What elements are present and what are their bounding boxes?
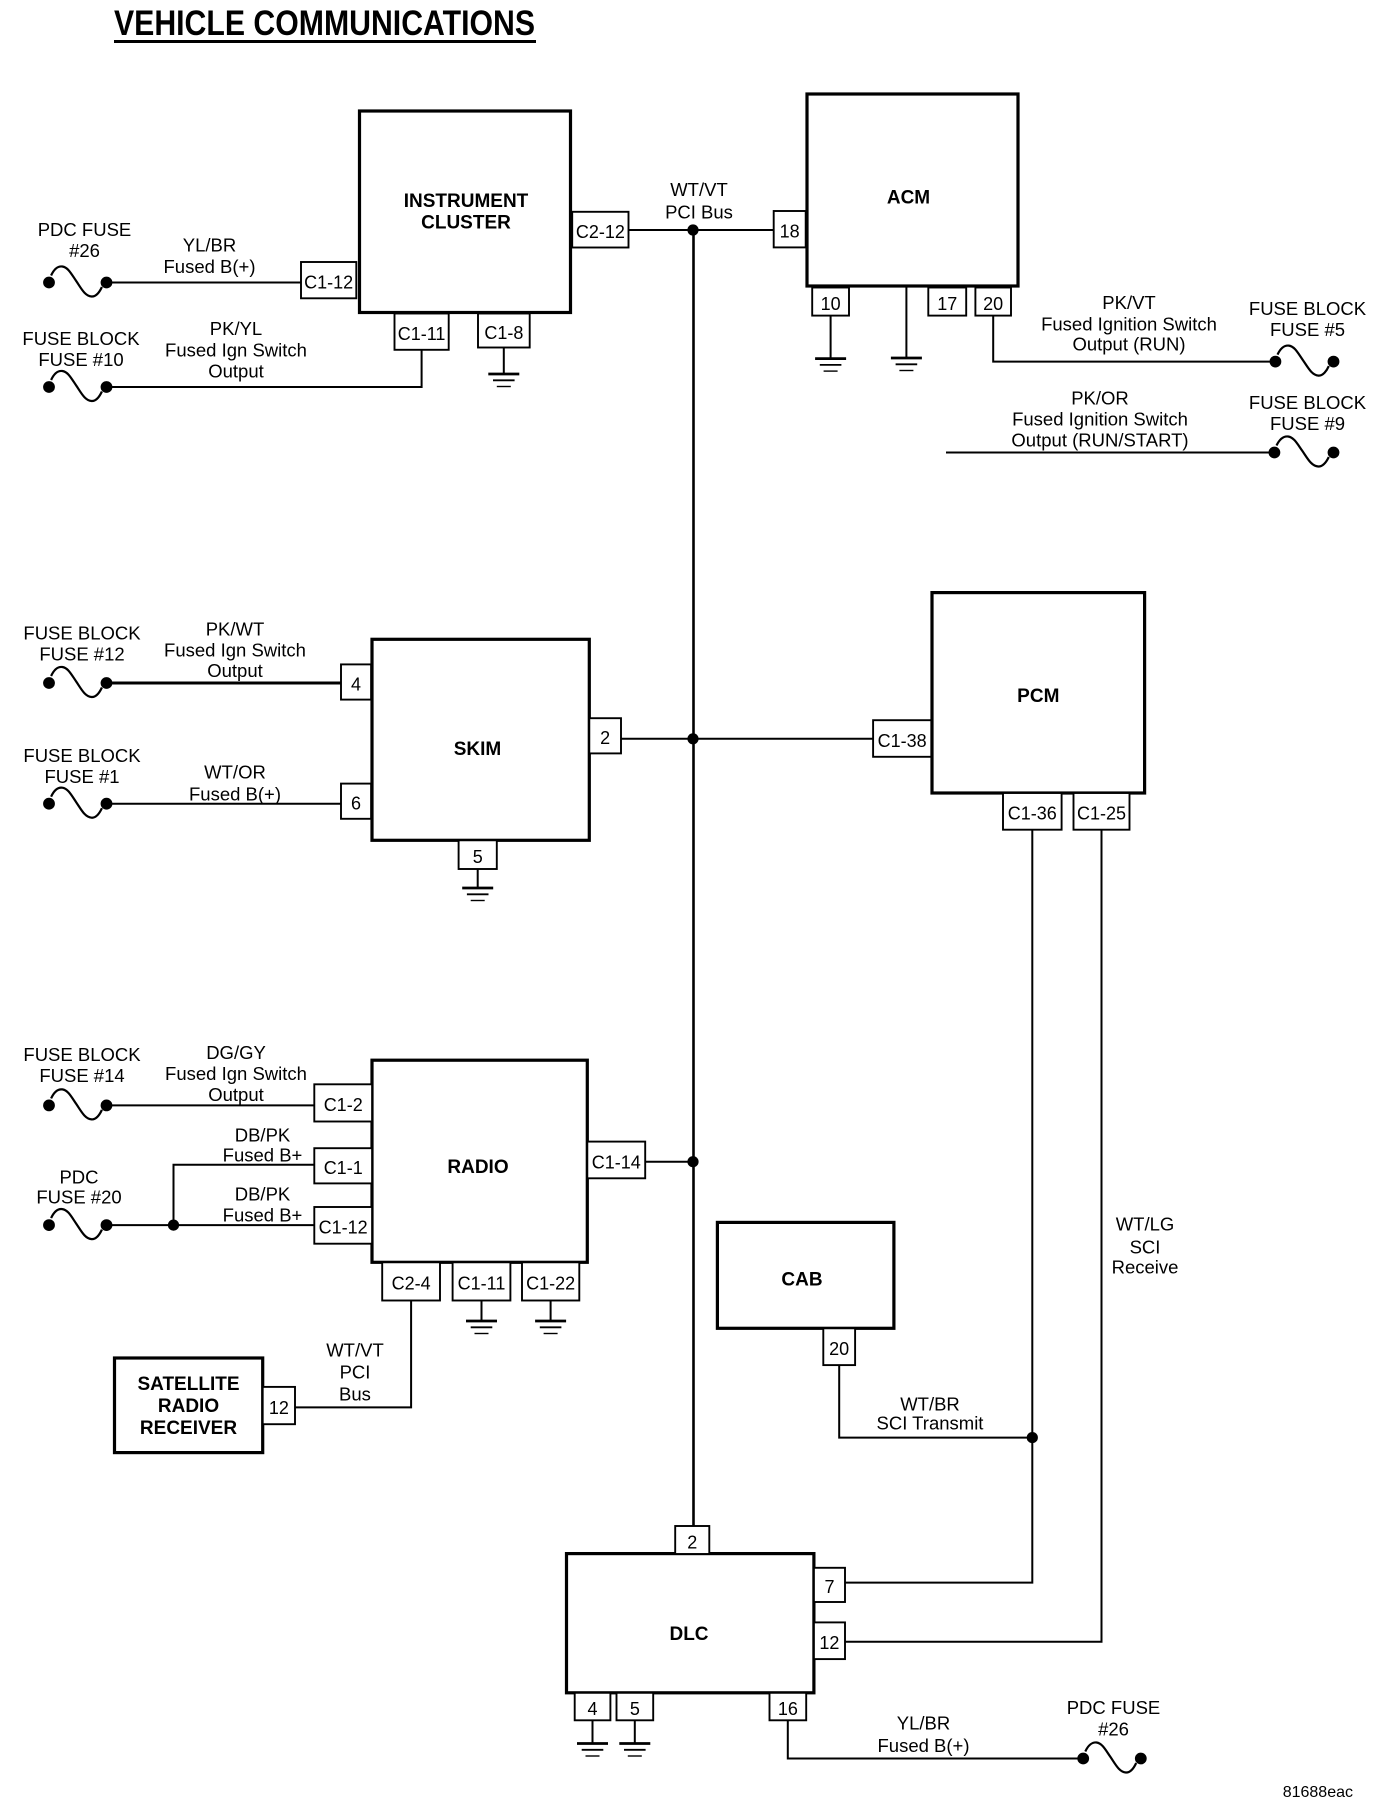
svg-text:PCM: PCM — [1017, 686, 1059, 707]
svg-text:CAB: CAB — [781, 1270, 822, 1291]
svg-text:FUSE BLOCK: FUSE BLOCK — [23, 1044, 141, 1065]
svg-text:WT/LG: WT/LG — [1116, 1214, 1175, 1235]
wire fuse block #10 to cluster C1-11 — [107, 350, 422, 387]
svg-text:C1-38: C1-38 — [878, 731, 927, 751]
fuse symbol FUSE BLOCK FUSE #10 — [43, 371, 112, 401]
svg-text:FUSE #9: FUSE #9 — [1270, 413, 1345, 434]
svg-text:12: 12 — [269, 1398, 289, 1418]
connector C1-2 (RADIO) — [314, 1084, 372, 1121]
svg-text:Bus: Bus — [339, 1384, 371, 1405]
wire ACM case ground pin — [905, 288, 907, 359]
node PCI bus junction at RADIO C1-14 — [687, 1156, 698, 1167]
node PCI bus junction at C2-12/ACM — [687, 224, 698, 235]
svg-text:PK/OR: PK/OR — [1071, 388, 1129, 409]
svg-text:FUSE BLOCK: FUSE BLOCK — [23, 623, 141, 644]
svg-text:Fused Ign Switch: Fused Ign Switch — [165, 1063, 307, 1084]
connector pin 5 (DLC) — [617, 1693, 654, 1721]
svg-text:DB/PK: DB/PK — [235, 1125, 291, 1146]
wire SKIM pin 2 to PCM C1-38 (PCI bus) — [621, 738, 873, 740]
connector C2-4 (RADIO) — [382, 1262, 440, 1300]
wire to fuse block #9 (PK/OR) — [946, 452, 1274, 454]
svg-text:C1-36: C1-36 — [1008, 804, 1057, 824]
box PCM U4 — [932, 593, 1145, 793]
connector C1-25 (PCM) — [1074, 793, 1130, 830]
svg-text:10: 10 — [821, 294, 841, 314]
svg-text:FUSE BLOCK: FUSE BLOCK — [22, 328, 140, 349]
connector pin 5 (SKIM) — [459, 840, 497, 869]
svg-text:WT/VT: WT/VT — [670, 179, 728, 200]
svg-text:Fused Ign Switch: Fused Ign Switch — [165, 340, 307, 361]
svg-text:PK/WT: PK/WT — [206, 619, 265, 640]
svg-text:PCI Bus: PCI Bus — [665, 202, 733, 223]
svg-text:7: 7 — [824, 1577, 834, 1597]
box RADIO U5 — [372, 1060, 587, 1262]
svg-text:RADIO: RADIO — [158, 1396, 219, 1417]
svg-text:81688eac: 81688eac — [1283, 1784, 1353, 1801]
svg-text:Fused B+: Fused B+ — [223, 1205, 303, 1226]
svg-text:SCI: SCI — [1130, 1237, 1161, 1258]
connector pin 12 (DLC) — [814, 1622, 845, 1659]
connector pin 4 (SKIM) — [341, 664, 371, 699]
svg-text:20: 20 — [829, 1339, 849, 1359]
ground (RADIO C1-11) — [466, 1321, 497, 1334]
box SATELLITE RADIO RECEIVER U6 — [115, 1358, 263, 1453]
box ACM U2 — [807, 94, 1018, 286]
connector C1-1 (RADIO) — [314, 1148, 372, 1183]
wire C1-8 to ground — [503, 348, 505, 375]
svg-text:C1-2: C1-2 — [324, 1095, 363, 1115]
svg-text:4: 4 — [588, 1699, 598, 1719]
wire DLC pin 16 to PDC fuse #26 (YL/BR) — [788, 1720, 1083, 1758]
connector pin 16 (DLC) — [770, 1693, 807, 1721]
ground (RADIO C1-22) — [535, 1321, 566, 1334]
fuse symbol PDC FUSE #20 — [43, 1209, 112, 1239]
svg-text:RECEIVER: RECEIVER — [140, 1418, 237, 1439]
wire PCM C1-36 down to DLC pin 7 (SCI transmit) — [845, 830, 1032, 1583]
svg-text:PK/VT: PK/VT — [1102, 292, 1155, 313]
fuse symbol FUSE BLOCK FUSE #12 — [43, 667, 112, 697]
connector pin 20 (CAB) — [823, 1328, 855, 1365]
wire CAB pin 20 to PCM C1-36 line (WT/BR SCI transmit) — [839, 1365, 1032, 1438]
wire fuse block #1 to SKIM pin 6 (WT/OR) — [107, 803, 342, 805]
connector pin 12 (satellite radio receiver) — [263, 1387, 295, 1424]
svg-text:Receive: Receive — [1112, 1257, 1179, 1278]
connector pin 4 (DLC) — [575, 1693, 611, 1721]
svg-text:C1-12: C1-12 — [304, 272, 353, 292]
svg-text:SATELLITE: SATELLITE — [137, 1374, 239, 1395]
svg-text:Fused B(+): Fused B(+) — [189, 784, 281, 805]
svg-text:Fused Ignition Switch: Fused Ignition Switch — [1041, 314, 1217, 335]
wire SKIM pin 5 to ground — [477, 869, 479, 888]
fuse symbol PDC FUSE #26 (top left) — [43, 266, 112, 296]
svg-text:DB/PK: DB/PK — [235, 1184, 291, 1205]
wire DLC pin 5 to ground — [634, 1720, 636, 1743]
wire fuse block #14 to RADIO C1-2 (DG/GY) — [107, 1104, 315, 1106]
svg-text:PCI: PCI — [340, 1362, 371, 1383]
connector pin 17 (ACM) — [928, 288, 966, 316]
svg-text:#26: #26 — [69, 240, 100, 261]
svg-text:FUSE #10: FUSE #10 — [38, 349, 123, 370]
svg-text:Fused B(+): Fused B(+) — [163, 256, 255, 277]
svg-text:4: 4 — [351, 674, 361, 694]
svg-text:12: 12 — [819, 1633, 839, 1653]
connector pin 6 (SKIM) — [341, 784, 371, 819]
wire cluster C2-12 to ACM pin 18 (PCI bus) — [629, 229, 774, 231]
svg-text:20: 20 — [983, 294, 1003, 314]
fuse symbol FUSE BLOCK FUSE #9 — [1269, 436, 1340, 466]
svg-text:SCI Transmit: SCI Transmit — [877, 1413, 984, 1434]
connector C1-12 (instrument cluster) — [301, 262, 356, 298]
ground (instrument cluster C1-8) — [488, 374, 519, 387]
ground (SKIM pin 5) — [462, 888, 493, 901]
svg-text:C2-4: C2-4 — [392, 1274, 431, 1294]
wire RADIO C1-22 to ground — [550, 1301, 552, 1322]
svg-text:WT/BR: WT/BR — [900, 1394, 960, 1415]
connector pin 7 (DLC) — [814, 1568, 845, 1602]
fuse symbol FUSE BLOCK FUSE #5 — [1270, 346, 1340, 376]
connector pin 20 (ACM) — [975, 288, 1011, 316]
wire RADIO C1-14 to PCI bus — [645, 1161, 693, 1163]
connector C1-38 (PCM) — [873, 720, 931, 757]
fuse symbol FUSE BLOCK FUSE #1 — [43, 788, 112, 818]
svg-text:FUSE BLOCK: FUSE BLOCK — [1249, 298, 1367, 319]
svg-text:PDC FUSE: PDC FUSE — [38, 219, 132, 240]
svg-text:PK/YL: PK/YL — [210, 318, 262, 339]
svg-text:C1-11: C1-11 — [398, 324, 446, 344]
svg-text:C1-14: C1-14 — [592, 1152, 641, 1172]
svg-text:VEHICLE COMMUNICATIONS: VEHICLE COMMUNICATIONS — [114, 4, 535, 43]
svg-text:C1-11: C1-11 — [458, 1274, 506, 1294]
svg-text:2: 2 — [687, 1532, 697, 1552]
wire branch junction up to RADIO C1-1 (DB/PK) — [174, 1165, 315, 1225]
svg-text:5: 5 — [473, 847, 483, 867]
svg-text:CLUSTER: CLUSTER — [421, 213, 511, 234]
svg-text:Output: Output — [208, 1084, 264, 1105]
svg-text:C2-12: C2-12 — [576, 222, 625, 242]
connector C1-11 (RADIO) — [453, 1262, 511, 1300]
svg-text:16: 16 — [778, 1699, 798, 1719]
wire fuse block #12 to SKIM pin 4 (PK/WT) — [107, 682, 342, 685]
connector pin 10 (ACM) — [812, 288, 849, 316]
ground (DLC pin 5) — [619, 1744, 650, 1757]
box INSTRUMENT CLUSTER U1 — [360, 111, 571, 313]
box CAB U7 — [717, 1222, 894, 1328]
svg-text:FUSE #20: FUSE #20 — [36, 1187, 121, 1208]
svg-text:Fused Ign Switch: Fused Ign Switch — [164, 640, 306, 661]
svg-text:6: 6 — [351, 794, 361, 814]
wire RADIO C2-4 down to satellite receiver pin 12 (PCI bus) — [295, 1301, 411, 1408]
wire DLC pin 4 to ground — [592, 1720, 594, 1743]
svg-text:Fused Ignition Switch: Fused Ignition Switch — [1012, 409, 1188, 430]
svg-text:2: 2 — [600, 728, 610, 748]
ground (ACM middle) — [891, 358, 922, 371]
wire PCM C1-25 down to DLC pin 12 (SCI receive) — [845, 830, 1102, 1642]
svg-text:Output: Output — [208, 361, 264, 382]
svg-text:WT/VT: WT/VT — [326, 1340, 384, 1361]
wire PDC fuse #20 to RADIO C1-12 (DB/PK) — [107, 1224, 315, 1226]
connector C1-11 (instrument cluster) — [395, 314, 449, 350]
connector pin 18 (ACM) — [774, 211, 806, 247]
ground (DLC pin 4) — [577, 1744, 608, 1757]
svg-text:FUSE BLOCK: FUSE BLOCK — [23, 745, 141, 766]
svg-text:WT/OR: WT/OR — [204, 762, 266, 783]
connector C1-36 (PCM) — [1003, 793, 1062, 830]
svg-text:FUSE #1: FUSE #1 — [44, 766, 119, 787]
svg-text:RADIO: RADIO — [447, 1157, 508, 1178]
fuse symbol FUSE BLOCK FUSE #14 — [43, 1089, 112, 1119]
box DLC U8 — [567, 1554, 814, 1693]
connector C1-14 (RADIO) — [587, 1142, 645, 1179]
connector C1-12 (RADIO) — [314, 1207, 372, 1244]
svg-text:17: 17 — [937, 294, 957, 314]
svg-text:DLC: DLC — [669, 1624, 708, 1645]
wire WT/VT PCI bus vertical (C2-12/18 junction down to DLC pin 2) — [692, 230, 695, 1526]
svg-text:18: 18 — [780, 222, 800, 242]
svg-text:Output (RUN): Output (RUN) — [1072, 334, 1185, 355]
svg-text:FUSE #14: FUSE #14 — [39, 1065, 124, 1086]
svg-text:PDC: PDC — [59, 1167, 98, 1188]
svg-text:ACM: ACM — [887, 188, 930, 209]
svg-text:C1-22: C1-22 — [526, 1274, 575, 1294]
box SKIM U3 — [372, 639, 589, 840]
wire RADIO C1-11 to ground — [481, 1301, 483, 1322]
connector C1-22 (RADIO) — [522, 1262, 579, 1300]
svg-text:5: 5 — [630, 1699, 640, 1719]
connector pin 2 (SKIM) — [589, 718, 621, 753]
svg-text:FUSE BLOCK: FUSE BLOCK — [1249, 392, 1367, 413]
connector pin 2 (DLC, top) — [675, 1526, 709, 1554]
svg-text:Fused B+: Fused B+ — [223, 1145, 303, 1166]
svg-text:FUSE #12: FUSE #12 — [39, 644, 124, 665]
wire fuse PDC #26 to cluster C1-12 — [107, 282, 302, 284]
svg-text:PDC FUSE: PDC FUSE — [1067, 1697, 1161, 1718]
svg-text:YL/BR: YL/BR — [897, 1713, 950, 1734]
node PCI bus junction at SKIM/PCM — [687, 733, 698, 744]
svg-text:SKIM: SKIM — [454, 739, 502, 760]
ground (ACM pin 10) — [815, 359, 846, 372]
svg-text:FUSE #5: FUSE #5 — [1270, 319, 1345, 340]
svg-text:Output: Output — [207, 660, 263, 681]
connector C2-12 (instrument cluster) — [572, 212, 628, 248]
svg-text:YL/BR: YL/BR — [183, 235, 236, 256]
svg-text:Output (RUN/START): Output (RUN/START) — [1011, 430, 1188, 451]
node junction CAB/C1-36 (SCI transmit) — [1027, 1432, 1038, 1443]
svg-text:#26: #26 — [1098, 1719, 1129, 1740]
wire ACM pin 10 to ground — [830, 316, 832, 359]
svg-text:DG/GY: DG/GY — [206, 1042, 266, 1063]
svg-text:INSTRUMENT: INSTRUMENT — [404, 191, 529, 212]
svg-text:C1-1: C1-1 — [324, 1158, 363, 1178]
wire ACM pin 20 to fuse block #5 — [993, 316, 1275, 362]
svg-text:Fused B(+): Fused B(+) — [877, 1735, 969, 1756]
svg-text:C1-8: C1-8 — [484, 323, 523, 343]
connector C1-8 (instrument cluster) — [478, 314, 530, 348]
node junction DB/PK branch — [168, 1220, 179, 1231]
fuse symbol PDC FUSE #26 (bottom right) — [1077, 1742, 1146, 1772]
svg-text:C1-25: C1-25 — [1077, 804, 1126, 824]
svg-text:C1-12: C1-12 — [319, 1218, 368, 1238]
